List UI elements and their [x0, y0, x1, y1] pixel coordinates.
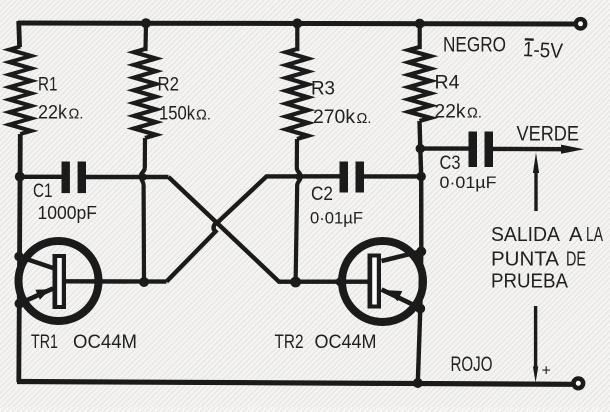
capacitor C1 1000pF [62, 162, 70, 194]
junction: C2 tap on collector column [417, 172, 426, 181]
resistor R1 22k [9, 47, 31, 135]
wire: VERDE output lead [493, 147, 563, 152]
resistor R3 270k [286, 23, 308, 168]
wire: C3 left lead [420, 146, 469, 150]
junction: TR2 emitter on column [415, 304, 425, 314]
wire: bottom supply rail (ROJO bus) [17, 382, 572, 385]
capacitor C2 0.01uF [340, 162, 349, 193]
junction: R3 top on NEGRO rail [292, 18, 302, 28]
arrow: up arrow to VERDE line [534, 170, 537, 211]
wire: diagonal A, C1 to TR2 base node [169, 177, 369, 282]
wire: C1 left lead [19, 175, 62, 179]
junction: R4 top on NEGRO rail [415, 19, 425, 29]
arrowhead: VERDE output arrow [561, 145, 584, 154]
junction: C3 tap on collector column [416, 144, 425, 153]
junction: R3 / TR2 base node [290, 277, 301, 288]
wire: left vertical column top (corner to R1) [16, 21, 22, 47]
junction: TR2 base line blob at circle edge [336, 277, 345, 286]
resistor R2 150k [134, 23, 156, 168]
label 1.5V battery [522, 38, 563, 63]
wire: R3 lead hop over C2 line [296, 168, 301, 282]
junction: R2 top on NEGRO rail [141, 18, 151, 28]
junction blob: R3 hop over C2 line [295, 173, 301, 179]
terminal: NEGRO battery terminal [576, 19, 585, 28]
wire: C2 right lead to TR2 collector column [364, 174, 421, 178]
wire: R4 column down to TR2 and ROJO rail [418, 121, 422, 383]
resistor R4 22k [409, 23, 431, 121]
junction blob: R2 hop over C1 line [140, 174, 147, 181]
junction: TR1 emitter on left rail [15, 299, 25, 309]
transistor TR2 OC44M [342, 241, 423, 322]
junction: R1 / C1 node [15, 172, 25, 182]
junction: TR2 emitter column on ROJO rail [413, 378, 423, 388]
wire: C1 right lead (crosses R2 column) [86, 175, 169, 179]
capacitor C3 0.01uF [469, 132, 478, 168]
wire: left vertical column (R1 bottom / C1 / TR1 / rail) [19, 134, 21, 382]
junction: R2 / TR1 base node [139, 277, 149, 287]
wire: diagonal B, TR1 base up to C2 (hops over diagonal A) [167, 176, 340, 281]
junction: TR1 collector on left rail [14, 252, 23, 261]
transistor TR1 OC44M [19, 241, 99, 321]
arrow: down arrow to ROJO rail [534, 306, 537, 369]
junction: TR2 collector on column [416, 247, 426, 257]
terminal: ROJO battery terminal [574, 379, 584, 389]
wire: TR1 base line [66, 279, 167, 284]
wire: top supply rail (NEGRO bus) [18, 23, 575, 24]
wire: R2 lead hop over C1 line [141, 168, 145, 282]
